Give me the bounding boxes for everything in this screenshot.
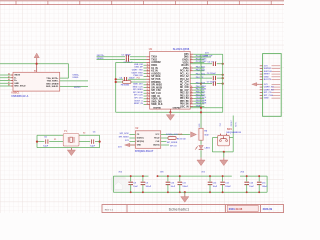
wire USB right pin2 <box>60 80 88 82</box>
svg-text:PB5_B5: PB5_B5 <box>180 101 189 103</box>
svg-text:PC15_OSC: PC15_OSC <box>196 61 207 63</box>
svg-text:19: 19 <box>191 100 193 102</box>
wire SW gnd stem <box>223 152 225 158</box>
wire cap rail bottom <box>113 191 267 193</box>
svg-text:SWD_CLK: SWD_CLK <box>133 86 144 88</box>
connector USBC1 <box>0 72 60 91</box>
svg-text:SWD_DIO: SWD_DIO <box>151 101 162 103</box>
svg-text:VDDA_IN: VDDA_IN <box>151 98 161 101</box>
svg-text:USB4085-GF-A: USB4085-GF-A <box>11 95 28 98</box>
wire crystal mid <box>37 141 100 143</box>
svg-text:GND: GND <box>264 98 269 100</box>
svg-text:X2: X2 <box>83 132 85 134</box>
svg-text:GNDPAD: GNDPAD <box>153 107 162 110</box>
svg-text:UART_TXD: UART_TXD <box>132 68 143 71</box>
svg-text:TXA_SSTX+: TXA_SSTX+ <box>46 77 59 80</box>
diode LED1 <box>195 145 203 149</box>
U2 left pin wires and labels <box>119 133 136 145</box>
svg-text:PWM_IN1: PWM_IN1 <box>133 75 143 77</box>
svg-text:PC2_A2: PC2_A2 <box>180 75 189 78</box>
svg-text:NC_C05: NC_C05 <box>180 84 190 86</box>
svg-text:R6 10 kΩ: R6 10 kΩ <box>177 138 186 140</box>
wire 2V5 cap rail top seg3 <box>240 175 267 177</box>
svg-text:UART_RX: UART_RX <box>264 88 275 91</box>
svg-text:DP1: DP1 <box>184 54 189 56</box>
wire SW loop left <box>212 137 217 139</box>
junction VBUS <box>36 63 38 65</box>
svg-text:18: 18 <box>191 97 193 99</box>
svg-text:SPI_MISO: SPI_MISO <box>119 136 129 138</box>
svg-text:C6 100nF: C6 100nF <box>207 73 217 75</box>
svg-text:HOLD: HOLD <box>154 138 160 140</box>
wire cap rail right vertical <box>266 176 268 192</box>
svg-text:SPI_CLK: SPI_CLK <box>151 93 161 95</box>
svg-text:Schematic1: Schematic1 <box>169 208 190 212</box>
svg-text:27: 27 <box>147 100 149 102</box>
svg-text:UART_RXD: UART_RXD <box>132 71 144 74</box>
svg-text:PA2_TX: PA2_TX <box>196 76 204 79</box>
wire rail A vertical <box>200 54 202 128</box>
svg-text:C9: C9 <box>146 183 148 185</box>
wire 3V3 cap rail top seg1 <box>113 175 148 177</box>
svg-text:SP_NEG: SP_NEG <box>151 76 161 78</box>
svg-text:SP_POS: SP_POS <box>151 79 161 81</box>
svg-text:U1: U1 <box>149 47 153 51</box>
wire gnd stem <box>184 192 186 196</box>
svg-text:PC3_A3: PC3_A3 <box>180 78 189 81</box>
svg-text:VDD1: VDD1 <box>183 62 190 64</box>
svg-text:NRST: NRST <box>264 74 271 76</box>
svg-text:SPI_CS0: SPI_CS0 <box>151 90 161 92</box>
svg-text:D-: D- <box>14 77 17 79</box>
power flag U2 left <box>125 143 136 146</box>
power flag left of P1 <box>252 83 260 86</box>
svg-text:12pF: 12pF <box>90 146 96 148</box>
svg-text:100nF: 100nF <box>262 186 268 188</box>
svg-text:1kΩ: 1kΩ <box>204 135 208 137</box>
svg-text:C13: C13 <box>225 183 229 185</box>
svg-text:LED: LED <box>199 123 201 127</box>
svg-text:SWCLK: SWCLK <box>264 71 272 73</box>
svg-text:TX1H: TX1H <box>151 57 157 59</box>
svg-text:SWDIO: SWDIO <box>264 68 272 70</box>
wire C4 row <box>116 78 147 80</box>
svg-text:PB6_B6: PB6_B6 <box>180 104 189 106</box>
svg-text:NC_C07: NC_C07 <box>180 90 190 92</box>
svg-text:PC1: PC1 <box>137 78 140 80</box>
capacitor C3 <box>212 62 217 67</box>
capacitor C6 <box>212 76 217 81</box>
svg-text:3: 3 <box>191 56 192 58</box>
svg-text:PB3_B3: PB3_B3 <box>180 95 189 97</box>
svg-text:16: 16 <box>191 91 193 93</box>
svg-text:USB_DM: USB_DM <box>134 64 143 66</box>
wire cap rail top seg2 <box>158 175 232 177</box>
svg-text:CLK: CLK <box>156 141 161 143</box>
svg-text:PC14_OSC: PC14_OSC <box>196 57 207 60</box>
svg-text:NC_C06: NC_C06 <box>180 87 190 89</box>
svg-text:10uF: 10uF <box>249 186 254 188</box>
svg-text:10uF: 10uF <box>213 186 218 188</box>
svg-text:SWD_DIO: SWD_DIO <box>133 83 143 85</box>
svg-text:BOOT_0: BOOT_0 <box>134 100 143 102</box>
svg-text:UCAP1: UCAP1 <box>181 64 190 67</box>
wire crystal loop top <box>37 134 100 136</box>
svg-text:SPI_CS1: SPI_CS1 <box>134 97 143 99</box>
wire U1 pin row1 3V3 <box>190 53 193 55</box>
wire VBUS vertical <box>68 64 70 78</box>
svg-text:GND: GND <box>264 76 269 78</box>
wire U1 bottom right row <box>190 107 223 109</box>
svg-text:SSTX1: SSTX1 <box>74 87 81 89</box>
capacitor C15 <box>257 176 262 192</box>
svg-text:VCC: VCC <box>155 134 160 136</box>
svg-text:SWD_CLK: SWD_CLK <box>151 104 163 106</box>
svg-text:C10: C10 <box>171 183 175 185</box>
svg-text:TX1D: TX1D <box>151 59 157 61</box>
svg-text:25: 25 <box>147 95 149 97</box>
wire crystal loop bottom <box>37 147 100 149</box>
svg-text:DO(IO1): DO(IO1) <box>137 138 145 140</box>
wire USB right pin1 <box>60 77 69 79</box>
svg-text:GND: GND <box>137 145 142 147</box>
svg-text:100nF: 100nF <box>146 186 152 188</box>
wire crystal loop right <box>99 135 101 147</box>
svg-text:AUXDD2: AUXDD2 <box>151 61 161 64</box>
svg-text:USBC1: USBC1 <box>11 92 20 95</box>
svg-text:PC13_TAMP: PC13_TAMP <box>196 55 209 58</box>
wire SSRX row <box>97 59 147 61</box>
svg-text:16: 16 <box>147 69 149 71</box>
capacitor C2 <box>125 57 130 62</box>
power flag U2 VCC <box>191 132 197 137</box>
svg-text:FB 600Ω: FB 600Ω <box>121 84 130 86</box>
svg-text:12pF: 12pF <box>43 146 49 148</box>
svg-text:DI(IO0): DI(IO0) <box>153 145 160 147</box>
svg-text:SPI_CS: SPI_CS <box>264 92 272 94</box>
wire USB right pin4 <box>60 85 88 87</box>
svg-text:26: 26 <box>147 97 149 99</box>
resistor R6 <box>168 137 176 140</box>
svg-text:TXB_SSRX-: TXB_SSRX- <box>47 81 59 83</box>
wire row PA0 <box>190 74 223 76</box>
svg-text:PC0_A0: PC0_A0 <box>180 70 189 73</box>
connector P1 (sheet box) <box>260 54 282 117</box>
svg-text:18: 18 <box>147 75 149 77</box>
wire U2 VCC <box>161 134 190 136</box>
capacitor C12 <box>207 176 212 192</box>
svg-text:C12: C12 <box>213 183 217 185</box>
wire U2 MISO <box>161 137 168 139</box>
svg-text:7: 7 <box>191 67 192 69</box>
capacitor C1 <box>125 55 130 60</box>
svg-text:SPI_DI: SPI_DI <box>170 146 177 148</box>
wire C3 row <box>190 63 223 65</box>
ground U1 <box>166 112 174 120</box>
resistor R4 <box>199 128 203 140</box>
svg-text:5: 5 <box>191 61 192 63</box>
ground LED <box>197 158 205 166</box>
svg-text:BOOT0: BOOT0 <box>264 79 272 81</box>
svg-text:C7 10uF: C7 10uF <box>207 82 216 84</box>
pin U1 gnd pad <box>169 109 171 112</box>
svg-text:2023-: 2023- <box>229 207 236 211</box>
svg-text:100nF: 100nF <box>225 186 231 188</box>
svg-text:GND1: GND1 <box>182 60 189 62</box>
svg-text:RTERM1: RTERM1 <box>151 82 161 84</box>
capacitor C7 <box>212 81 217 86</box>
wire SW net vertical <box>232 116 234 152</box>
svg-text:GND_DRAIN: GND_DRAIN <box>46 82 59 85</box>
wire crystal gnd stem <box>70 148 72 151</box>
wire vertical rail left <box>115 62 117 112</box>
svg-text:X1: X1 <box>54 139 56 141</box>
svg-text:K2_IN: K2_IN <box>151 71 158 73</box>
svg-text:3V3(N)_SCK: 3V3(N)_SCK <box>166 134 178 136</box>
wire FB row <box>116 81 147 83</box>
wire SSTX row <box>97 56 147 58</box>
svg-text:PC1_A1: PC1_A1 <box>180 72 189 75</box>
svg-text:WP_MODE: WP_MODE <box>167 142 178 144</box>
capacitor C6x <box>90 139 95 144</box>
wire VBUS horizontal <box>0 63 69 65</box>
svg-text:RESET: RESET <box>231 119 233 126</box>
svg-text:22: 22 <box>147 86 149 88</box>
ferrite bead FB1 <box>123 81 131 84</box>
svg-text:SPI_MISO: SPI_MISO <box>133 89 143 91</box>
capacitor C11 <box>177 176 182 192</box>
svg-text:GNDPAD: GNDPAD <box>173 107 182 110</box>
wire R4 to LED <box>200 140 202 145</box>
wire LED to gnd <box>200 150 202 157</box>
wire rail corner row <box>116 61 147 63</box>
capacitor C14 <box>244 176 249 192</box>
junction U1 gnd <box>169 111 171 113</box>
svg-text:SW1: SW1 <box>227 129 233 131</box>
ground SW1 <box>220 158 228 166</box>
U1 left pin stubs and net labels <box>132 57 150 105</box>
capacitor C10 <box>165 176 170 192</box>
svg-text:SL2324-QF08: SL2324-QF08 <box>173 47 190 51</box>
wire SW right top <box>229 137 233 139</box>
svg-text:SHD_SHLD1: SHD_SHLD1 <box>46 86 59 88</box>
watermark icon <box>111 177 132 192</box>
svg-text:09-08: 09-08 <box>236 207 243 211</box>
svg-text:100nF: 100nF <box>182 186 188 188</box>
title block <box>102 205 284 213</box>
power flag VBUS <box>34 53 39 64</box>
svg-text:UART_TX: UART_TX <box>264 86 274 89</box>
svg-text:SKQGABE010: SKQGABE010 <box>226 131 241 134</box>
svg-text:SPI_MOSI: SPI_MOSI <box>151 87 162 89</box>
svg-text:B9: B9 <box>8 85 10 87</box>
svg-text:8: 8 <box>191 69 192 71</box>
wire U1 pin DM <box>190 56 211 58</box>
wire U2 DI <box>161 144 169 146</box>
switch SW1 posts <box>219 134 221 136</box>
wire long bottom horizontal <box>116 111 223 113</box>
svg-text:20: 20 <box>191 102 193 104</box>
U1 right pin stubs and net labels <box>190 55 208 105</box>
svg-text:2023-09: 2023-09 <box>263 207 273 211</box>
svg-text:AUXDD1: AUXDD1 <box>151 72 161 75</box>
svg-text:28: 28 <box>147 103 149 105</box>
wire U2 CLK <box>161 141 167 143</box>
svg-text:OSC_IN: OSC_IN <box>180 106 189 108</box>
svg-text:VDD_IO: VDD_IO <box>151 96 160 98</box>
svg-text:PB2_B2: PB2_B2 <box>180 93 189 95</box>
wire 3V3 rail right vertical <box>222 54 224 112</box>
svg-text:USB2-: USB2- <box>73 77 79 79</box>
crystal Y1 <box>63 134 79 146</box>
svg-text:SHD_SHLD: SHD_SHLD <box>14 86 26 88</box>
wire crystal loop left <box>36 135 38 147</box>
svg-text:KEY1: KEY1 <box>236 122 238 127</box>
capacitor C5 <box>44 139 49 144</box>
capacitor C9 <box>140 176 145 192</box>
svg-text:100nF: 100nF <box>129 77 136 79</box>
svg-text:K1_IN: K1_IN <box>151 68 158 70</box>
capacitor C8 <box>128 176 133 192</box>
sheet frame top border <box>0 1 303 5</box>
pin VBUS top <box>36 64 38 73</box>
svg-text:SPI_MISO: SPI_MISO <box>151 85 162 87</box>
svg-text:SPI_CLK: SPI_CLK <box>264 95 273 97</box>
op IC U1 <box>150 51 191 109</box>
svg-text:WP(IO2): WP(IO2) <box>137 141 145 143</box>
svg-text:REV 1.0: REV 1.0 <box>105 209 114 211</box>
svg-text:PB4_B4: PB4_B4 <box>180 97 189 100</box>
svg-text:RXD1: RXD1 <box>151 65 158 67</box>
junction cap gnd <box>184 191 186 193</box>
svg-text:P25Q32H-SSH-IT: P25Q32H-SSH-IT <box>135 151 154 153</box>
svg-text:180Ω: 180Ω <box>178 134 183 136</box>
svg-text:SPI_CLK: SPI_CLK <box>134 95 143 97</box>
svg-text:LED1: LED1 <box>205 148 211 150</box>
wire cap rail left vertical <box>112 176 114 192</box>
svg-text:15: 15 <box>191 89 193 91</box>
capacitor C4 <box>123 77 128 82</box>
svg-text:15: 15 <box>147 67 149 69</box>
ground capbank <box>181 194 189 202</box>
svg-text:2SSTX+: 2SSTX+ <box>97 55 105 57</box>
switch SW1 body <box>218 135 230 145</box>
wire SW loop bottom <box>212 151 233 153</box>
svg-text:USB_DP: USB_DP <box>134 67 143 69</box>
svg-text:17: 17 <box>191 94 193 96</box>
svg-text:21: 21 <box>147 83 149 85</box>
svg-text:NRST_IN: NRST_IN <box>134 103 143 105</box>
svg-text:VSS1: VSS1 <box>183 68 190 70</box>
wire C7 row <box>190 83 223 85</box>
svg-text:10uF: 10uF <box>133 186 138 188</box>
svg-text:NC_C04: NC_C04 <box>180 81 190 84</box>
svg-text:C1 100nF: C1 100nF <box>122 55 132 57</box>
svg-text:SPI_MOSI: SPI_MOSI <box>133 92 143 94</box>
capacitor C13 <box>220 176 225 192</box>
svg-text:17: 17 <box>147 72 149 74</box>
svg-text:23: 23 <box>147 89 149 91</box>
ground crystal <box>67 148 75 156</box>
svg-text:DM1: DM1 <box>184 57 190 59</box>
wire C6 row <box>190 77 223 79</box>
IC U2 flash <box>135 131 160 149</box>
svg-text:2SSRX-: 2SSRX- <box>97 58 105 60</box>
svg-text:GND: GND <box>14 83 19 85</box>
svg-text:VBUS: VBUS <box>14 75 20 77</box>
svg-text:SPI_SCK: SPI_SCK <box>120 133 130 135</box>
